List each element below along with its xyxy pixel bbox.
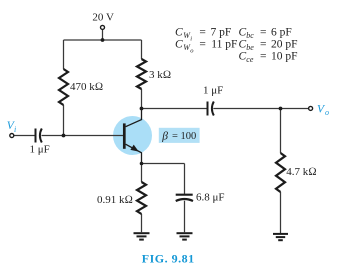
svg-text:11 pF: 11 pF <box>211 39 237 51</box>
svg-text:C: C <box>239 51 247 63</box>
svg-text:= 100: = 100 <box>172 131 196 142</box>
svg-text:7 pF: 7 pF <box>211 27 232 39</box>
svg-text:4.7 kΩ: 4.7 kΩ <box>286 166 316 178</box>
svg-text:C: C <box>239 27 247 39</box>
svg-text:bc: bc <box>246 31 254 40</box>
svg-text:ce: ce <box>246 55 254 64</box>
svg-text:20 pF: 20 pF <box>271 39 298 51</box>
svg-text:C: C <box>175 27 183 39</box>
svg-text:o: o <box>325 108 329 117</box>
svg-text:=: = <box>260 27 267 39</box>
svg-text:6.8 μF: 6.8 μF <box>196 192 225 204</box>
svg-text:FIG. 9.81: FIG. 9.81 <box>142 251 195 265</box>
svg-text:o: o <box>190 48 194 55</box>
svg-text:β: β <box>161 131 168 143</box>
svg-text:i: i <box>14 125 16 134</box>
svg-text:20 V: 20 V <box>92 11 114 23</box>
svg-text:i: i <box>190 36 192 43</box>
svg-text:3 kΩ: 3 kΩ <box>149 69 171 81</box>
svg-text:1 μF: 1 μF <box>30 143 50 155</box>
svg-text:0.91 kΩ: 0.91 kΩ <box>97 194 133 206</box>
svg-text:6 pF: 6 pF <box>271 27 292 39</box>
svg-text:10 pF: 10 pF <box>271 51 298 63</box>
svg-text:=: = <box>260 39 267 51</box>
svg-text:be: be <box>246 43 254 52</box>
svg-text:=: = <box>199 27 206 39</box>
svg-text:470 kΩ: 470 kΩ <box>70 81 103 93</box>
svg-text:C: C <box>239 39 247 51</box>
svg-text:C: C <box>175 39 183 51</box>
svg-text:=: = <box>260 51 267 63</box>
svg-text:=: = <box>199 39 206 51</box>
svg-text:1 μF: 1 μF <box>203 84 223 96</box>
